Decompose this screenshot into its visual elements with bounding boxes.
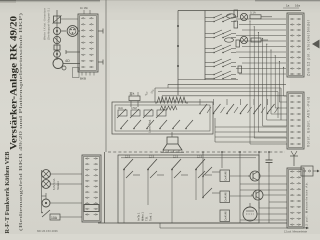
switch bank S1 (Tastensatz): [205, 14, 236, 79]
svg-text:Do4146: Do4146: [224, 171, 228, 181]
wires to connector C1: [236, 19, 286, 74]
capacitor C4: [266, 152, 273, 172]
jack J2: [53, 36, 60, 43]
svg-text:Verstärker-Anlage RK 49/20: Verstärker-Anlage RK 49/20: [9, 16, 19, 150]
svg-text:12,9: 12,9: [125, 155, 131, 159]
wire vertical to bottom bus: [104, 152, 106, 223]
resistor R6: [238, 66, 242, 73]
svg-text:16a: 16a: [295, 4, 300, 8]
svg-text:0,5M: 0,5M: [131, 106, 137, 110]
B1 lower ticks and label: [80, 72, 94, 81]
svg-text:Do4146: Do4146: [224, 192, 228, 202]
tiny note labels: [143, 88, 155, 96]
lamp La1: [227, 13, 248, 20]
wires M2 to C2: [215, 118, 286, 142]
svg-text:12 pol. Messerleiste Ab.: 12 pol. Messerleiste Ab.: [305, 182, 309, 228]
connector C3 (12 pol Messerleiste): [287, 168, 304, 228]
svg-text:10A: 10A: [51, 216, 58, 220]
switch bank S2: [199, 99, 278, 114]
resistor R2: [54, 45, 60, 50]
svg-text:4Ω: 4Ω: [65, 59, 70, 63]
channel labels: [137, 212, 153, 221]
potentiometer P3: [130, 106, 140, 118]
connector C2 (Steckverbinder Mitte): [287, 92, 304, 149]
svg-text:1b 16b: 1b 16b: [80, 6, 88, 10]
wire chain to block: [63, 50, 80, 64]
B2 boxed row: [84, 205, 99, 212]
svg-text:Skalenl.: Skalenl.: [56, 180, 60, 190]
wires bottom right mesh: [221, 151, 287, 223]
lamp La3: [42, 170, 51, 179]
panel top rail: [178, 10, 301, 12]
svg-text:Werte f.Krist.-Umsetzer: Werte f.Krist.-Umsetzer: [43, 8, 47, 40]
svg-text:Vorst. Endst. Abfr.-Feld: Vorst. Endst. Abfr.-Feld: [307, 97, 311, 147]
svg-text:12,9: 12,9: [149, 155, 155, 159]
svg-text:22k: 22k: [130, 92, 135, 96]
relay coil K2: [220, 191, 230, 203]
B1 right stubs: [98, 29, 103, 65]
svg-text:Do4146: Do4146: [224, 211, 228, 221]
note text Werte: [43, 8, 51, 40]
wire P1 to B1: [61, 18, 79, 20]
switch arrows row: [120, 120, 193, 129]
svg-text:R-F-T Funkwerk Köthen VEB: R-F-T Funkwerk Köthen VEB: [5, 151, 11, 233]
preamp box M1: [112, 102, 213, 134]
section separator line: [105, 0, 107, 152]
C1 top labels: [283, 4, 300, 9]
jack J5: [42, 199, 50, 207]
resistor R4: [234, 21, 238, 28]
potentiometer P2: [117, 106, 127, 118]
switch bank S4 (Tasten unten): [123, 155, 212, 191]
relay coil K3: [220, 210, 230, 222]
wires jacks to B2: [42, 170, 83, 217]
svg-text:12 pol. Messerleiste: 12 pol. Messerleiste: [284, 230, 308, 234]
svg-text:T.B.: T.B.: [145, 216, 149, 221]
auxiliary box with arrow: [301, 166, 320, 176]
svg-text:Mikro 1: Mikro 1: [141, 212, 145, 221]
C1 side text: [307, 19, 311, 76]
svg-text:(Bedienungsfeld BKB 49/20 und: (Bedienungsfeld BKB 49/20 und Plattenspi…: [18, 12, 23, 231]
potentiometer P4: [143, 109, 153, 118]
transistor Q1: [248, 171, 286, 181]
wire feed S5/S6: [202, 151, 204, 197]
jack J3: [54, 51, 61, 58]
switch S5: [202, 167, 220, 177]
wire chain vertical: [56, 10, 58, 60]
connector C1 (12-pol Steckverbinder oben): [287, 13, 304, 77]
top scan edge: [0, 0, 100, 1]
loudspeaker LS1: [161, 132, 184, 153]
tube V1: [243, 203, 287, 221]
title small: R-F-T Funkwerk Koethen VEB: [5, 151, 11, 233]
dashed divider horizontal: [108, 151, 285, 153]
bus jog: [159, 223, 161, 228]
B1 top ticks: [80, 6, 90, 14]
switch S3 with fuse 10A: [41, 210, 60, 220]
resistor R3: [234, 10, 238, 17]
resistor R7: [250, 11, 272, 19]
svg-text:Lautst.Regl.: Lautst.Regl.: [148, 119, 152, 133]
amplifier box M2 top: [155, 84, 286, 120]
svg-text:BKB: BKB: [80, 77, 86, 81]
svg-text:12,9: 12,9: [173, 155, 179, 159]
bus wire lower: [160, 227, 309, 230]
svg-text:1a: 1a: [286, 4, 290, 8]
subtitle line: [18, 12, 23, 231]
antenna symbol: [290, 151, 298, 166]
resistor R5: [236, 40, 240, 47]
inductor L1: [155, 97, 188, 103]
svg-text:12,9: 12,9: [197, 155, 203, 159]
connector B1 (BKB Steckerleiste): [78, 14, 98, 72]
svg-text:4kΩ: 4kΩ: [118, 106, 123, 110]
relay coil K1: [220, 170, 230, 182]
resistor R8: [251, 38, 268, 42]
potentiometer P5: [156, 109, 166, 118]
panel inner rail: [204, 11, 206, 81]
jack J4: [53, 59, 66, 71]
svg-text:MD 26.153 4036: MD 26.153 4036: [37, 229, 58, 233]
C2 side text: [307, 97, 311, 147]
relay box B3 outline: [118, 155, 259, 223]
potentiometer P1: [53, 16, 62, 24]
vertical text Lautst Regler: [148, 119, 152, 133]
svg-text:Zum 12 pol. Steckverbinder: Zum 12 pol. Steckverbinder: [307, 19, 311, 76]
bus wire bottom: [98, 222, 287, 224]
label 4 ohm: [65, 59, 79, 78]
lamp labels: [52, 178, 60, 190]
title bold: Verstaerker-Anlage RK 49/20: [9, 16, 19, 150]
switch S6: [202, 188, 220, 198]
jack J1: [53, 27, 60, 34]
svg-text:(Drehkoppel-Magnet-S.): (Drehkoppel-Magnet-S.): [47, 8, 51, 40]
resistor R9 22k: [129, 92, 140, 108]
wires B3 verticals: [124, 190, 196, 223]
svg-text:AnTa 1: AnTa 1: [137, 212, 141, 221]
round connector X1: [61, 26, 80, 37]
C3 side text: [305, 182, 309, 228]
panel bottom edge: [178, 79, 238, 81]
panel left rail: [177, 11, 179, 96]
svg-text:0,1A: 0,1A: [250, 11, 256, 15]
inductor L2: [160, 106, 177, 110]
wire bundle to connector C2: [249, 20, 287, 144]
lamp La4: [42, 180, 51, 189]
transistor Q2: [251, 190, 286, 200]
connector B2 (BKP Steckerleiste): [82, 155, 101, 222]
svg-text:Tonf. 1: Tonf. 1: [149, 212, 153, 221]
lamp La2: [225, 36, 248, 43]
bottom notes: [37, 229, 308, 234]
right margin arrow: [312, 40, 320, 49]
